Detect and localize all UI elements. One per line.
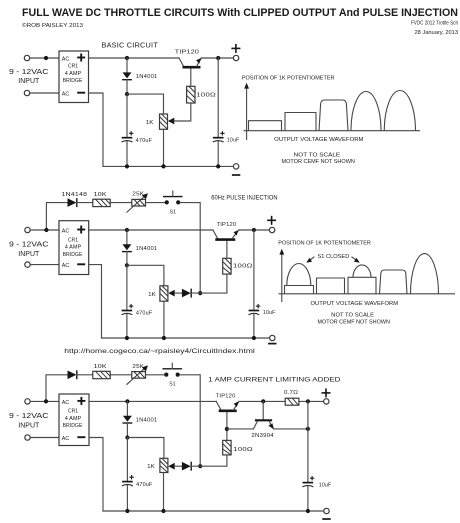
svg-text:1K: 1K	[148, 292, 156, 298]
wire: pot bottom to ground rail (circuit 1)	[163, 129, 165, 166]
axis baseline (graph 2)	[279, 293, 456, 295]
svg-text:S1: S1	[170, 209, 177, 215]
wire: switch to injection node (circuit 3)	[180, 375, 200, 466]
bridge rectifier CR1 (circuit 1)	[59, 51, 89, 103]
wire: TIP120 emitter to + output terminal (circuit 1)	[201, 57, 233, 59]
wire: wiper to injection diode (circuit 3)	[175, 465, 182, 467]
svg-text:NOT TO SCALE: NOT TO SCALE	[331, 312, 374, 318]
output terminal - (circuit 1)	[233, 164, 238, 169]
wire: input top to bridge AC (circuit 1)	[30, 57, 59, 59]
svg-text:AC: AC	[62, 263, 69, 269]
svg-text:470uF: 470uF	[136, 311, 153, 317]
junction: below diode node (circuit 1)	[125, 92, 129, 96]
bridge rectifier CR1 (circuit 3)	[59, 394, 89, 446]
label: S1 CLOSED with arrows (graph 2)	[306, 254, 359, 263]
minus sign (circuit 1)	[232, 174, 240, 176]
junction: TIP120 base node (circuit 3)	[225, 427, 229, 431]
wire: input bottom to bridge AC (circuit 1)	[30, 92, 59, 94]
minus sign (circuit 2)	[268, 343, 276, 345]
svg-text:AC: AC	[62, 91, 69, 97]
transistor TIP120 (circuit 2)	[213, 230, 239, 240]
svg-text:10uF: 10uF	[263, 310, 276, 316]
input terminal bottom (circuit 3)	[25, 435, 30, 440]
svg-text:BRIDGE: BRIDGE	[63, 252, 83, 258]
svg-text:FVDC 2012 Trottle Sch: FVDC 2012 Trottle Sch	[411, 21, 458, 27]
junction: 10uF on rail (circuit 1)	[216, 164, 220, 168]
potentiometer 25K (circuit 2)	[127, 193, 148, 212]
wire: diode to base branch (circuit 3)	[191, 455, 227, 466]
capacitor 10uF (circuit 2)	[248, 230, 260, 338]
svg-text:AC: AC	[62, 228, 69, 234]
plus sign (circuit 3)	[322, 388, 331, 397]
waveform shape 3 rect with hump (graph 2)	[348, 265, 376, 294]
svg-text:10uF: 10uF	[227, 137, 240, 143]
wire: diode node to pot top (circuit 3)	[127, 438, 163, 459]
wire: input top to bridge (circuit 2)	[30, 229, 59, 231]
transistor TIP120 (circuit 1)	[179, 58, 201, 67]
axis vertical with arrow (graph 1)	[244, 83, 249, 140]
plus sign (circuit 1)	[231, 44, 240, 53]
wiper arrow of 1K pot (circuit 3)	[168, 463, 174, 470]
svg-text:0.7Ω: 0.7Ω	[284, 390, 298, 396]
axis baseline (graph 1)	[244, 130, 421, 132]
wire: TIP120 base node to 2N3904 collector (circuit 3)	[227, 428, 254, 430]
wire: input bottom to bridge (circuit 3)	[30, 437, 59, 439]
svg-text:OUTPUT VOLTAGE WAVEFORM: OUTPUT VOLTAGE WAVEFORM	[274, 137, 364, 143]
plus sign (circuit 2)	[267, 216, 276, 225]
output terminal - (circuit 2)	[270, 335, 275, 340]
junction: output branch on rail (circuit 3)	[306, 509, 310, 513]
svg-text:2N3904: 2N3904	[251, 433, 274, 439]
svg-text:4 AMP: 4 AMP	[65, 71, 82, 77]
waveform hump 5 (graph 1)	[384, 90, 415, 130]
wire: output branch vertical (circuit 3)	[307, 401, 309, 482]
waveform shape 4 clipped sine (graph 2)	[380, 270, 408, 294]
svg-text:470uF: 470uF	[136, 482, 153, 488]
junction: emitter wire on output branch (circuit 3)	[306, 427, 310, 431]
svg-text:S1: S1	[169, 382, 176, 388]
diode 1N4001 (circuit 3)	[123, 401, 133, 437]
svg-text:INPUT: INPUT	[18, 421, 39, 430]
svg-text:BRIDGE: BRIDGE	[63, 423, 83, 429]
output terminal + (circuit 3)	[324, 399, 329, 404]
svg-text:9 - 12VAC: 9 - 12VAC	[9, 67, 49, 76]
svg-text:4 AMP: 4 AMP	[65, 245, 82, 251]
resistor 100 ohm (circuit 2)	[223, 258, 231, 274]
input terminal bottom (circuit 2)	[25, 262, 30, 267]
waveform step 2 (graph 1)	[285, 113, 316, 131]
resistor 10K (circuit 2)	[93, 199, 110, 206]
svg-text:CR1: CR1	[68, 409, 78, 415]
junction: pot on rail (circuit 3)	[161, 509, 165, 513]
wire: bottom rail (circuit 3)	[103, 510, 324, 512]
wire: bottom rail (circuit 1)	[103, 165, 233, 167]
svg-text:9 - 12VAC: 9 - 12VAC	[9, 411, 49, 420]
wire: 2N3904 emitter to output branch (circuit 3)	[274, 428, 308, 430]
junction: diode tap (circuit 2)	[125, 228, 129, 232]
junction on input wire (circuit 1)	[44, 56, 48, 60]
svg-text:TIP120: TIP120	[217, 222, 237, 228]
wire: injection chain from input tap (circuit 2)	[46, 203, 67, 230]
svg-text:10K: 10K	[94, 192, 108, 198]
junction: 10uF tap (circuit 2)	[252, 228, 256, 232]
svg-text:POSITION OF 1K POTENTIOMETER: POSITION OF 1K POTENTIOMETER	[242, 76, 335, 82]
svg-text:1N4001: 1N4001	[136, 74, 158, 80]
diode wiper-to-base (circuit 3)	[182, 462, 191, 471]
svg-text:http://home.cogeco.ca/~rpaisle: http://home.cogeco.ca/~rpaisley4/Circuit…	[64, 349, 255, 355]
junction: 470uF on rail (circuit 2)	[125, 336, 129, 340]
svg-text:MOTOR CEMF NOT SHOWN: MOTOR CEMF NOT SHOWN	[318, 319, 390, 325]
svg-text:POSITION OF 1K POTENTIOMETER: POSITION OF 1K POTENTIOMETER	[278, 240, 371, 246]
wire: 25K to switch (circuit 3)	[146, 374, 164, 376]
wire: bridge + rail to TIP120 collector (circuit 3)	[89, 400, 216, 402]
capacitor 470uF (circuit 1)	[122, 94, 134, 166]
wire: 100 ohm to TIP120 base (circuit 1)	[190, 69, 192, 87]
transistor TIP120 (circuit 3)	[216, 401, 239, 410]
svg-text:1K: 1K	[147, 464, 155, 470]
junction: injection node (circuit 2)	[198, 291, 202, 295]
axis vertical with arrow (graph 2)	[279, 249, 284, 302]
wire: TIP120 emitter to 0.7 ohm (circuit 3)	[239, 400, 285, 402]
svg-text:60Hz PULSE INJECTION: 60Hz PULSE INJECTION	[211, 195, 277, 201]
resistor 100 ohm (circuit 3)	[223, 440, 231, 455]
junction: injection node (circuit 3)	[198, 464, 202, 468]
svg-text:100Ω: 100Ω	[233, 264, 253, 270]
pushbutton switch S1 (circuit 2)	[163, 191, 183, 204]
wire: 25K to switch (circuit 2)	[146, 202, 165, 204]
junction: below diode node (circuit 2)	[125, 263, 129, 267]
wire: 10K to 25K (circuit 2)	[110, 202, 132, 204]
input terminal bottom (circuit 1)	[24, 90, 29, 95]
output terminal - (circuit 3)	[324, 508, 329, 513]
svg-text:MOTOR CEMF NOT SHOWN: MOTOR CEMF NOT SHOWN	[282, 159, 355, 165]
minus sign (circuit 3)	[322, 518, 330, 520]
svg-text:AC: AC	[62, 400, 69, 406]
wire: diode to 10K (circuit 2)	[77, 202, 93, 204]
wire: diode node to pot top (circuit 2)	[127, 265, 164, 286]
wire: input top to bridge (circuit 3)	[30, 400, 59, 402]
wire: injection chain from input tap (circuit 3)	[46, 375, 68, 402]
svg-text:INPUT: INPUT	[18, 76, 39, 85]
input terminal top (circuit 3)	[25, 399, 30, 404]
waveform shape 1 rect with hump (graph 2)	[285, 264, 314, 294]
bridge rectifier CR1 (circuit 2)	[59, 221, 89, 275]
svg-text:©ROB PAISLEY 2013: ©ROB PAISLEY 2013	[22, 22, 83, 29]
svg-text:BASIC CIRCUIT: BASIC CIRCUIT	[102, 40, 159, 49]
svg-text:25K: 25K	[132, 192, 144, 198]
svg-text:AC: AC	[62, 436, 69, 442]
svg-text:4 AMP: 4 AMP	[65, 416, 82, 422]
svg-text:1 AMP CURRENT LIMITING ADDED: 1 AMP CURRENT LIMITING ADDED	[208, 377, 341, 383]
resistor 10K (circuit 3)	[93, 371, 110, 378]
svg-text:CR1: CR1	[68, 237, 78, 243]
wire: switch to injection node (circuit 2)	[180, 203, 200, 294]
svg-text:INPUT: INPUT	[18, 249, 39, 258]
wiper arrow of 1K pot (circuit 1)	[168, 118, 174, 125]
wire: pot bottom to rail (circuit 2)	[163, 301, 165, 338]
wire: diode to 10K (circuit 3)	[77, 374, 93, 376]
wire: wiper to injection diode (circuit 2)	[175, 292, 182, 294]
waveform shape 5 hump (graph 2)	[411, 254, 439, 294]
wire: 100 ohm to TIP120 base node (circuit 3)	[226, 412, 228, 440]
wire: bridge + output rail to TIP120 collector (circuit 1)	[89, 57, 180, 59]
wire: diode to base branch (circuit 2)	[191, 274, 227, 293]
junction: 470uF on rail (circuit 3)	[125, 509, 129, 513]
svg-text:28 January, 2013: 28 January, 2013	[415, 30, 459, 36]
wire: input bottom to bridge (circuit 2)	[30, 264, 59, 266]
junction: 10uF on rail (circuit 2)	[252, 336, 256, 340]
svg-text:CR1: CR1	[68, 64, 78, 70]
svg-text:100Ω: 100Ω	[233, 447, 253, 453]
capacitor 470uF (circuit 2)	[121, 265, 133, 338]
junction: output branch tap (circuit 3)	[306, 399, 310, 403]
svg-text:1N4148: 1N4148	[61, 192, 87, 198]
output terminal + (circuit 1)	[233, 55, 238, 60]
wire: wiper to 100 ohm resistor (circuit 1)	[174, 103, 191, 121]
svg-text:470uF: 470uF	[136, 138, 153, 144]
resistor 100 ohm (circuit 1)	[187, 86, 195, 103]
potentiometer 1K (circuit 3)	[160, 458, 168, 472]
junction: 10uF tap (circuit 1)	[216, 56, 220, 60]
waveform step 3 clipped sine (graph 1)	[319, 100, 348, 131]
pushbutton switch S1 (circuit 3)	[163, 363, 183, 377]
wire: 10K to 25K (circuit 3)	[110, 374, 132, 376]
output terminal + (circuit 2)	[269, 227, 274, 232]
wire: diode node to potentiometer top (circuit 1)	[127, 94, 164, 114]
diode 1N4001 (circuit 2)	[122, 230, 132, 265]
junction: pot on rail (circuit 2)	[162, 336, 166, 340]
junction: 470uF on rail (circuit 1)	[125, 164, 129, 168]
wire: pot bottom to rail (circuit 3)	[163, 473, 165, 512]
junction: injection chain tap (circuit 3)	[44, 399, 48, 403]
svg-text:1N4001: 1N4001	[136, 418, 158, 424]
svg-text:10K: 10K	[94, 364, 108, 370]
diode wiper-to-base (circuit 2)	[182, 289, 191, 298]
waveform shape 2 rect (graph 2)	[317, 278, 345, 294]
waveform step 1 (graph 1)	[249, 121, 282, 131]
potentiometer 1K (circuit 1)	[160, 114, 168, 129]
wire: bridge - output to bottom rail (circuit 2)	[89, 265, 102, 338]
junction: injection chain tap (circuit 2)	[44, 228, 48, 232]
potentiometer 25K (circuit 3)	[127, 365, 148, 384]
wire: bottom rail (circuit 2)	[102, 337, 270, 339]
capacitor 470uF (circuit 3)	[122, 438, 134, 512]
transistor 2N3904 (circuit 3)	[253, 401, 274, 429]
svg-text:OUTPUT VOLTAGE WAVEFORM: OUTPUT VOLTAGE WAVEFORM	[311, 301, 399, 307]
svg-text:AC: AC	[62, 56, 69, 62]
svg-text:9 - 12VAC: 9 - 12VAC	[9, 239, 49, 248]
waveform hump 4 (graph 1)	[351, 91, 381, 130]
capacitor 10uF (circuit 1)	[213, 58, 225, 166]
potentiometer 1K (circuit 2)	[160, 286, 168, 301]
wire: TIP120 emitter to + terminal (circuit 2)	[239, 229, 270, 231]
junction: diode tap (circuit 3)	[125, 399, 129, 403]
diode 1N4148 (circuit 3)	[68, 370, 77, 379]
wiper arrow of 1K pot (circuit 2)	[168, 290, 174, 297]
diode 1N4148 (circuit 2)	[68, 198, 77, 207]
svg-text:BRIDGE: BRIDGE	[63, 78, 83, 84]
capacitor 10uF (circuit 3)	[302, 476, 314, 511]
diode 1N4001 (circuit 1)	[122, 58, 132, 94]
junction: 2N3904 base tap (circuit 3)	[261, 399, 265, 403]
svg-text:S1 CLOSED: S1 CLOSED	[318, 254, 350, 260]
junction: diode tap on + rail (circuit 1)	[125, 56, 129, 60]
svg-text:25K: 25K	[132, 364, 144, 370]
junction: pot on rail (circuit 1)	[161, 164, 165, 168]
svg-text:NOT TO SCALE: NOT TO SCALE	[294, 152, 341, 158]
junction: below diode node (circuit 3)	[125, 435, 129, 439]
wire: 0.7 ohm to + terminal (circuit 3)	[299, 400, 324, 402]
svg-text:1N4001: 1N4001	[136, 246, 158, 252]
wire: 100 ohm to TIP120 base (circuit 2)	[226, 241, 228, 258]
wire: bridge - output to bottom rail (circuit 1)	[89, 93, 104, 166]
svg-text:TIP120: TIP120	[216, 394, 236, 400]
resistor 0.7 ohm (circuit 3)	[285, 398, 299, 405]
input terminal top (circuit 2)	[25, 227, 30, 232]
svg-text:FULL WAVE DC THROTTLE CIRCUITS: FULL WAVE DC THROTTLE CIRCUITS With CLIP…	[22, 7, 458, 19]
svg-text:100Ω: 100Ω	[196, 92, 216, 98]
svg-text:1K: 1K	[146, 120, 154, 126]
input terminal top (circuit 1)	[24, 55, 29, 60]
wire: bridge - output to bottom rail (circuit 3)	[89, 438, 103, 512]
svg-text:10uF: 10uF	[319, 482, 332, 488]
wire: bridge + rail to TIP120 collector (circuit 2)	[89, 229, 213, 231]
svg-text:TIP120: TIP120	[175, 49, 199, 55]
